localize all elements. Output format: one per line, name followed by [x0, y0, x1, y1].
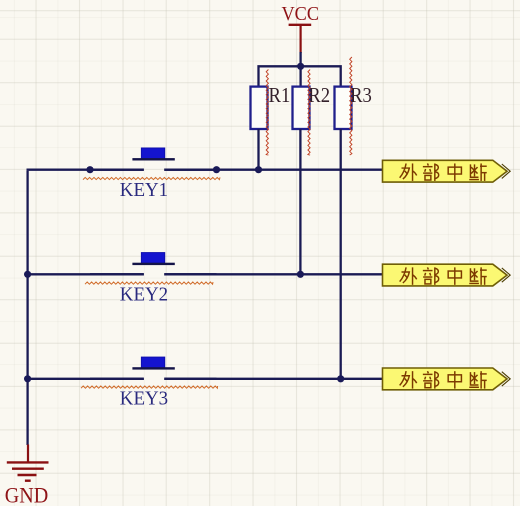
underline marker KEY2 [85, 282, 213, 284]
power symbol VCC [282, 3, 320, 53]
junction R2 to KEY2 row [297, 271, 304, 278]
wire KEY3 row left segment [28, 378, 144, 380]
wire KEY1 row left segment [27, 169, 144, 171]
pushbutton switch KEY3 symbol [90, 357, 217, 379]
underline marker KEY3 [81, 386, 218, 388]
wire top rail to R1 and R3 [259, 66, 341, 87]
wire rail to R2 top [299, 66, 301, 87]
wire VCC stem [299, 52, 301, 66]
port 外部中断 (external interrupt 2) [383, 264, 511, 286]
wire R2 bottom to KEY2 row [299, 129, 301, 274]
wire KEY1 row right segment to port [164, 169, 383, 171]
wire KEY2 row left segment [28, 273, 144, 275]
pushbutton switch KEY2 symbol [90, 253, 217, 275]
port 外部中断 (external interrupt 1) [383, 160, 511, 182]
ground GND [5, 445, 49, 506]
junction KEY1 right pin node [213, 166, 220, 173]
underline marker KEY1 [83, 177, 220, 179]
wire KEY3 row right segment to port [164, 378, 383, 380]
svg-text:R3: R3 [350, 83, 372, 107]
resistor R2 [293, 87, 310, 129]
wire R3 bottom to KEY3 row [340, 129, 342, 379]
junction R3 to KEY3 row [337, 375, 344, 382]
svg-text:R2: R2 [308, 83, 330, 107]
svg-text:KEY3: KEY3 [120, 389, 168, 410]
wire left vertical bus [26, 171, 28, 445]
ERC marker squiggle at R1 [266, 70, 268, 156]
svg-text:VCC: VCC [282, 3, 320, 25]
ERC marker squiggle at R3 [350, 57, 352, 155]
svg-text:GND: GND [5, 482, 49, 506]
junction R1 to KEY1 row [255, 166, 262, 173]
svg-text:KEY1: KEY1 [120, 180, 168, 201]
svg-text:KEY2: KEY2 [120, 284, 168, 305]
junction left bus KEY3 row [24, 375, 31, 382]
wire KEY2 row right segment to port [164, 273, 383, 275]
pushbutton switch KEY1 symbol [90, 148, 217, 170]
ERC marker squiggle at R2 [308, 70, 310, 156]
junction KEY1 left pin node [86, 166, 93, 173]
svg-text:R1: R1 [269, 83, 291, 107]
resistor R3 [335, 87, 352, 129]
junction left bus KEY2 row [24, 271, 31, 278]
port 外部中断 (external interrupt 3) [383, 368, 511, 390]
resistor R1 [251, 87, 268, 129]
wire R1 bottom to KEY1 row [257, 129, 259, 170]
junction VCC rail node [297, 63, 304, 70]
